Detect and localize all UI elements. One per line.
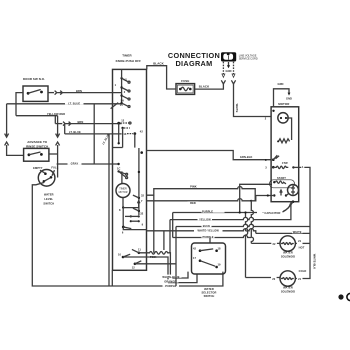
timer bottom terminals	[118, 248, 141, 270]
svg-text:12: 12	[121, 119, 125, 123]
svg-text:LEVEL: LEVEL	[44, 197, 53, 201]
timer interior mid contacts	[113, 119, 144, 148]
wire WHITE-YELLOW	[147, 229, 256, 251]
wire start winding to purple	[240, 184, 272, 212]
wire fuse to timer, label BLACK	[147, 61, 176, 89]
svg-text:10: 10	[118, 253, 122, 257]
svg-text:SWITCH: SWITCH	[204, 294, 215, 298]
svg-text:DIAGRAM: DIAGRAM	[175, 59, 212, 68]
wire YELLOW to capacitor node	[170, 202, 291, 253]
svg-text:18: 18	[217, 247, 221, 251]
svg-text:PINK: PINK	[190, 184, 197, 188]
svg-text:START: START	[277, 176, 286, 180]
svg-text:MOTOR: MOTOR	[278, 102, 290, 106]
svg-text:LT. BLUE: LT. BLUE	[69, 130, 81, 134]
svg-text:WHITE: WHITE	[235, 104, 239, 113]
svg-text:L2: L2	[124, 77, 128, 81]
wire RED timer to motor	[147, 194, 272, 205]
svg-text:KNOB-PUSH OFF: KNOB-PUSH OFF	[116, 59, 142, 63]
svg-text:YELLOW: YELLOW	[199, 217, 211, 221]
svg-text:SOLENOID: SOLENOID	[281, 254, 295, 258]
svg-text:WHITE: WHITE	[293, 230, 302, 234]
wire N white down to motor	[234, 84, 272, 117]
vertical purple to cold 20	[246, 213, 248, 278]
wire rinse sw right to rail	[49, 153, 58, 155]
wire door sw to timer BRN	[48, 89, 113, 95]
wire PURPLE lower	[173, 235, 252, 243]
gnd arrow under plug	[226, 62, 232, 73]
water selector switch	[192, 243, 226, 298]
svg-text:TIMER: TIMER	[122, 54, 132, 58]
right rail x57.6 with connector	[56, 116, 60, 178]
wire LT BLUE upper	[7, 101, 113, 106]
connector chevron N	[231, 80, 235, 84]
label TIMER KNOB-PUSH OFF	[116, 54, 142, 63]
svg-text:ORANGE: ORANGE	[164, 280, 176, 284]
wire GRN-BLK timer to motor	[147, 151, 272, 163]
svg-text:11: 11	[138, 248, 141, 252]
title CONNECTION DIAGRAM	[168, 51, 220, 68]
svg-text:GRN-BLK: GRN-BLK	[240, 155, 253, 159]
svg-text:4TW: 4TW	[282, 161, 288, 165]
svg-text:WHITE-BLUE: WHITE-BLUE	[162, 275, 179, 279]
svg-text:13: 13	[123, 132, 127, 136]
vertical pink-red to hot 22	[251, 201, 253, 244]
motor bottom contact row	[271, 190, 294, 212]
cold water solenoid	[272, 269, 306, 293]
svg-text:SWITCH: SWITCH	[43, 202, 54, 206]
advance to rinse switch	[24, 140, 49, 161]
wire 1 motor to right rail	[299, 165, 310, 244]
line lead N dashed	[232, 62, 235, 78]
svg-text:SERVICE CORD: SERVICE CORD	[239, 57, 258, 60]
svg-text:21: 21	[298, 277, 302, 281]
door switch N.O.	[23, 77, 48, 101]
line lead L1 dashed	[222, 62, 225, 78]
svg-text:BRN: BRN	[77, 120, 83, 124]
motor start section	[270, 176, 299, 196]
svg-text:LT. BLUE: LT. BLUE	[68, 102, 80, 106]
svg-text:WHITE-YELLOW: WHITE-YELLOW	[197, 229, 219, 233]
svg-text:WATER: WATER	[283, 251, 293, 255]
timer interior right bus	[133, 148, 145, 227]
svg-text:SELECTOR: SELECTOR	[202, 290, 217, 294]
vertical timer-bottom corner stub	[111, 270, 113, 286]
wire PURPLE to capacitor note	[173, 210, 257, 238]
svg-text:BRN: BRN	[76, 89, 82, 93]
wire BLUE to right rail	[176, 224, 310, 228]
svg-text:42: 42	[193, 247, 197, 251]
motor main winding	[278, 113, 292, 140]
svg-text:PINK: PINK	[150, 255, 157, 259]
wire PINK timer to motor	[147, 184, 256, 252]
wire WHITE-BLUE	[161, 272, 189, 279]
svg-text:WATER: WATER	[283, 286, 293, 290]
svg-text:20: 20	[272, 277, 276, 281]
svg-text:12: 12	[132, 266, 136, 270]
svg-text:17: 17	[193, 256, 197, 260]
timer interior contacts	[111, 69, 130, 165]
label CAPACITOR	[262, 204, 290, 216]
wire YELLOW-RED	[16, 112, 65, 116]
svg-text:WHITE-BLK: WHITE-BLK	[313, 254, 317, 269]
wire LT BLUE lower	[65, 124, 113, 135]
motor box	[271, 102, 299, 202]
svg-text:SOLENOID: SOLENOID	[281, 289, 295, 293]
svg-text:BLUE: BLUE	[203, 224, 211, 228]
svg-text:* CAPACITOR: * CAPACITOR	[262, 211, 280, 215]
connector chevron L1	[221, 80, 225, 84]
svg-text:FUSE: FUSE	[181, 79, 189, 83]
svg-text:32: 32	[140, 212, 144, 216]
wire WLS bottom long loop	[32, 183, 223, 287]
watermark partial circle	[347, 293, 350, 300]
svg-text:BLACK: BLACK	[153, 61, 164, 65]
motor contacts 5/3	[265, 155, 298, 169]
svg-text:19: 19	[217, 262, 221, 266]
svg-text:DOOR SW N.O.: DOOR SW N.O.	[23, 77, 45, 81]
svg-text:5A: 5A	[121, 98, 125, 102]
svg-text:COLD: COLD	[299, 269, 307, 273]
wire L1 to fuse	[195, 84, 224, 89]
label PURPLE on long wire	[163, 227, 180, 288]
hot water solenoid	[272, 236, 295, 258]
vertical LT BLUE long	[101, 133, 110, 286]
svg-text:MOTOR: MOTOR	[119, 191, 128, 194]
svg-text:EMPTY: EMPTY	[33, 166, 43, 170]
svg-text:WATER: WATER	[44, 192, 54, 196]
svg-text:PURPLE: PURPLE	[165, 284, 176, 288]
wire ORANGE	[162, 274, 197, 284]
svg-text:HOT: HOT	[299, 245, 305, 249]
watermark dot	[338, 294, 343, 299]
svg-text:RED: RED	[190, 201, 196, 205]
svg-text:ADVANCE TO: ADVANCE TO	[27, 140, 47, 144]
wire WHITE to hot solenoid node	[256, 230, 310, 234]
wires timer bottom to selector	[123, 252, 176, 283]
svg-text:15: 15	[120, 103, 124, 107]
svg-text:BLACK: BLACK	[199, 85, 210, 89]
left rail with connector	[5, 104, 24, 156]
svg-text:PURPLE: PURPLE	[202, 235, 213, 239]
svg-text:21: 21	[298, 239, 302, 243]
svg-text:PURPLE: PURPLE	[202, 210, 213, 214]
svg-text:GND: GND	[286, 96, 292, 100]
svg-text:WATER: WATER	[204, 287, 214, 291]
fuse F1	[176, 79, 195, 94]
svg-text:YELLOW-RED: YELLOW-RED	[47, 112, 65, 116]
line voltage service cord plug	[221, 52, 258, 61]
water level switch	[33, 166, 59, 206]
vertical x94	[93, 104, 95, 164]
vertical x16 to yellow-red	[15, 104, 17, 116]
wire cold 21 up	[295, 243, 316, 281]
timer box	[113, 69, 147, 270]
svg-text:GRAY: GRAY	[71, 162, 79, 166]
svg-text:FULL: FULL	[51, 166, 58, 170]
timer motor M	[116, 167, 147, 235]
wire hot solenoid 21 to rail	[295, 239, 310, 249]
svg-text:22: 22	[272, 242, 276, 246]
svg-text:GRN: GRN	[277, 82, 283, 86]
motor thermal zigzag	[277, 139, 290, 143]
svg-text:1C: 1C	[117, 167, 121, 171]
svg-text:32: 32	[141, 193, 145, 197]
wire BRN lower	[55, 116, 112, 126]
wire door sw left + jog	[16, 93, 23, 104]
wire GRAY to timer	[57, 162, 113, 166]
svg-text:42: 42	[140, 129, 144, 133]
svg-text:GND: GND	[226, 69, 232, 73]
motor GRN + GND	[272, 82, 292, 112]
